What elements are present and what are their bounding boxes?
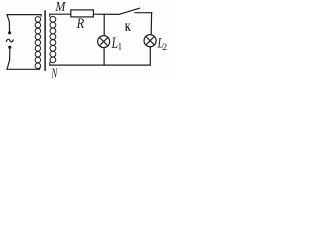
terminal dot upper (8, 31, 11, 34)
svg-text:M: M (55, 0, 66, 14)
AC source tilde (6, 39, 13, 42)
lamp L1 (98, 36, 110, 48)
wire: top edge of source loop (7, 14, 41, 16)
wire: bottom rail N (50, 64, 151, 66)
lamp L2 (144, 35, 156, 47)
terminal dot lower (8, 46, 11, 49)
wire: left edge lower segment (7, 49, 10, 70)
svg-text:R: R (76, 16, 84, 32)
wire: L1 branch top stem (103, 14, 105, 35)
transformer secondary winding (50, 14, 56, 65)
resistor R (71, 10, 94, 17)
wire: L1 bottom stem (103, 48, 105, 66)
switch K blade (119, 8, 140, 14)
svg-text:K: K (125, 21, 131, 34)
transformer core (44, 11, 46, 71)
svg-text:N: N (51, 65, 58, 79)
transformer primary winding (35, 15, 41, 70)
wire: contact corner down to lamp L2 (150, 13, 152, 35)
wire: left edge upper segment (7, 15, 10, 32)
wire: resistor to switch (93, 13, 118, 15)
wire: L2 bottom stem (149, 47, 151, 65)
svg-text:2: 2 (162, 42, 167, 53)
switch K fixed contact (135, 12, 152, 14)
wire: bottom edge of source loop (7, 68, 40, 70)
svg-text:1: 1 (118, 43, 123, 53)
wire: node M to resistor (50, 13, 71, 15)
